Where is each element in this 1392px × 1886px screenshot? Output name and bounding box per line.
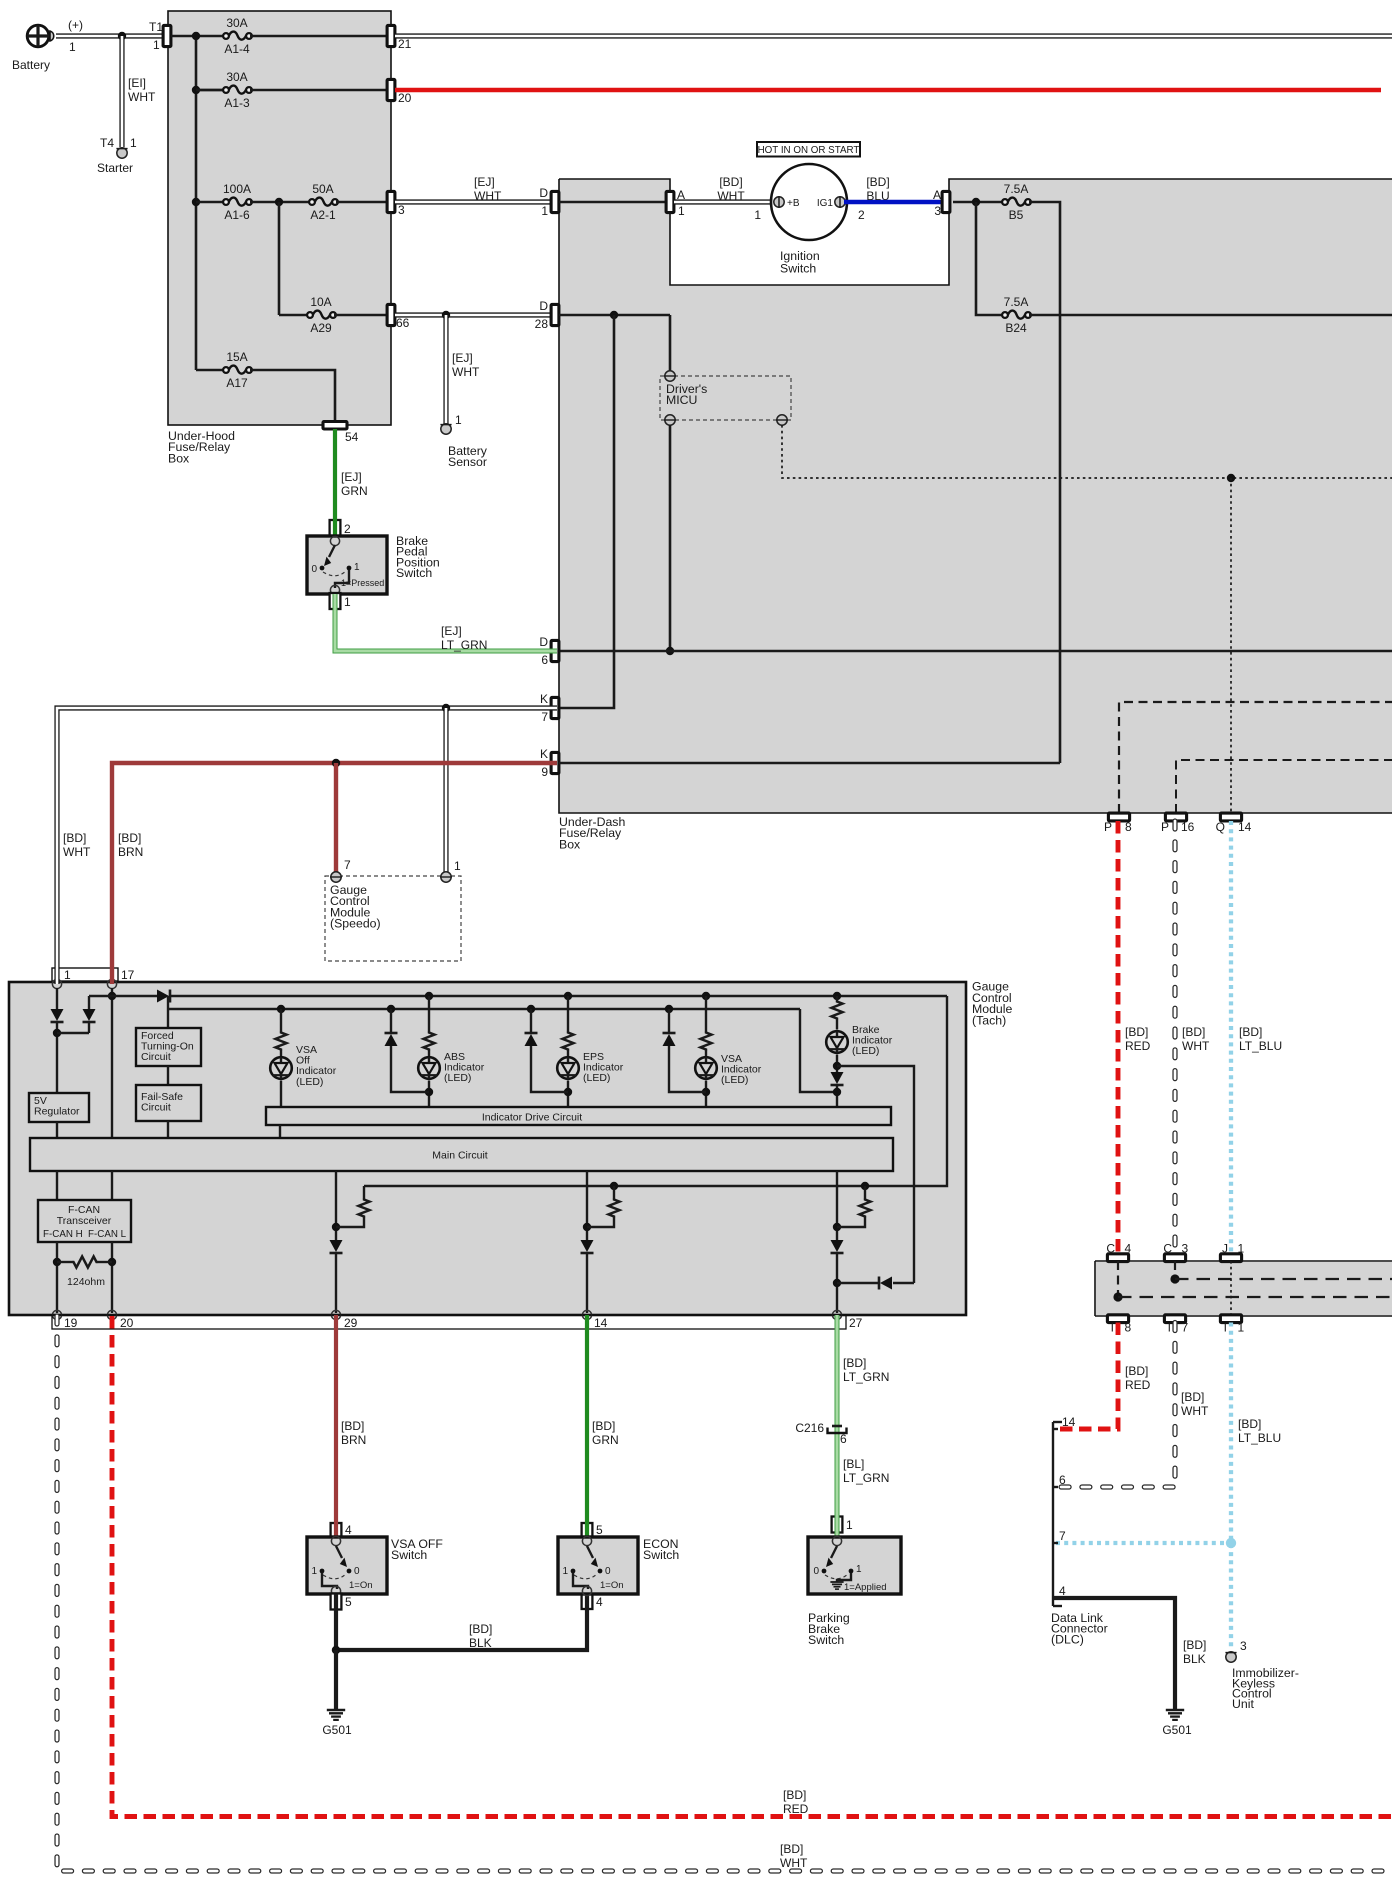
- MICU pin top-left: [665, 371, 675, 381]
- svg-text:3: 3: [1240, 1639, 1247, 1653]
- wire down to fuse A29: [278, 202, 281, 315]
- wire pin 66 to D28: [395, 312, 551, 317]
- svg-text:LT_BLU: LT_BLU: [1238, 1431, 1281, 1445]
- connector C4: [1107, 1254, 1128, 1262]
- svg-text:C: C: [1106, 1242, 1115, 1256]
- svg-text:[BD]: [BD]: [1181, 1390, 1204, 1404]
- wire fuse B24 to right edge: [1029, 314, 1392, 317]
- rail line1 to pullup rail: [364, 996, 947, 1186]
- node 124ohm right: [108, 1258, 116, 1266]
- svg-text:LT_GRN: LT_GRN: [843, 1471, 889, 1485]
- parking brake switch internals: [832, 1536, 841, 1545]
- svg-text:50A: 50A: [312, 182, 333, 196]
- speedo pin 7: [331, 872, 341, 882]
- svg-text:P: P: [1104, 820, 1112, 834]
- connector Q14: [1220, 813, 1241, 821]
- svg-text:WHT: WHT: [128, 90, 156, 104]
- svg-text:7.5A: 7.5A: [1004, 182, 1029, 196]
- connector VSA pin 5: [331, 1594, 342, 1610]
- svg-text:[EJ]: [EJ]: [441, 624, 462, 638]
- svg-text:(LED): (LED): [852, 1045, 879, 1057]
- connector P16: [1165, 813, 1186, 821]
- diode D pin1: [51, 1009, 64, 1021]
- connector pin 20: [387, 79, 395, 100]
- svg-text:17: 17: [121, 968, 135, 982]
- svg-text:BLK: BLK: [1183, 1652, 1206, 1666]
- speedo pin 1: [441, 872, 451, 882]
- column pin 27: [836, 1171, 838, 1240]
- node 124ohm left: [53, 1258, 61, 1266]
- svg-text:[BD]: [BD]: [783, 1788, 806, 1802]
- svg-text:WHT: WHT: [63, 845, 91, 859]
- svg-text:1: 1: [64, 968, 71, 982]
- node black junction: [332, 1646, 340, 1654]
- under-dash fuse/relay box: [559, 179, 1392, 813]
- wire fuse A1-4 to pin 21: [250, 35, 387, 38]
- connector C216: [832, 1425, 842, 1428]
- svg-text:14: 14: [594, 1316, 608, 1330]
- wire fuse A29 to pin 66: [334, 314, 387, 317]
- F-CAN L wire: [111, 1171, 113, 1200]
- svg-text:1: 1: [856, 1564, 862, 1575]
- svg-text:[BD]: [BD]: [341, 1419, 364, 1433]
- svg-text:[BD]: [BD]: [1125, 1025, 1148, 1039]
- node battery sensor tap: [442, 311, 450, 319]
- tach bottom pins: [52, 1310, 61, 1319]
- svg-text:1: 1: [846, 1518, 853, 1532]
- wire forced to fail-safe: [167, 1066, 169, 1085]
- wire D28 into box: [559, 314, 670, 317]
- connector I7: [1164, 1315, 1185, 1323]
- wire DLC 4 black to ground: [1053, 1598, 1175, 1709]
- rail line2 branch: [167, 996, 169, 1028]
- node lt-blue junction: [1226, 1538, 1236, 1548]
- svg-text:Circuit: Circuit: [141, 1051, 171, 1063]
- svg-text:A1-6: A1-6: [224, 208, 250, 222]
- svg-text:Circuit: Circuit: [141, 1102, 171, 1114]
- node pin17 rail: [108, 992, 116, 1000]
- tach pin 17: [107, 979, 116, 988]
- svg-text:1: 1: [678, 204, 685, 218]
- brake pedal switch internals: [330, 536, 339, 545]
- svg-text:K: K: [540, 747, 548, 761]
- ABS indicator column: [425, 992, 433, 1000]
- connector K9: [551, 752, 559, 773]
- fuse 30A A1-3: [196, 89, 225, 92]
- svg-text:WHT: WHT: [1181, 1404, 1209, 1418]
- wire fuse A1-3 to pin 20: [250, 89, 387, 92]
- svg-text:Box: Box: [559, 837, 581, 851]
- wire pin17 internal: [111, 988, 113, 1138]
- svg-text:2: 2: [344, 522, 351, 536]
- svg-text:A29: A29: [310, 321, 332, 335]
- svg-text:2: 2: [858, 208, 865, 222]
- svg-text:Main Circuit: Main Circuit: [432, 1150, 488, 1162]
- svg-text:1=On: 1=On: [349, 1580, 373, 1591]
- resistor 124ohm: [57, 1261, 72, 1263]
- wire P16 white dashed down: [1172, 821, 1177, 1254]
- svg-text:Switch: Switch: [780, 262, 816, 276]
- connector A3: [942, 191, 950, 212]
- starter terminal T4: [117, 148, 127, 158]
- svg-text:F-CAN H: F-CAN H: [43, 1229, 83, 1240]
- gauge control module (speedo) box: [325, 876, 461, 961]
- brake series diode: [831, 1072, 844, 1084]
- svg-text:Sensor: Sensor: [448, 455, 487, 469]
- driver's MICU box: [660, 376, 791, 420]
- wire split down to fuse B24: [976, 202, 1004, 315]
- tach bottom connector housing: [52, 1315, 846, 1329]
- node bus A1-6: [192, 198, 200, 206]
- ECON switch box: [558, 1537, 638, 1594]
- connector I1: [1220, 1315, 1241, 1323]
- ECON switch internals: [582, 1536, 591, 1545]
- bus wire inside under-hood box: [171, 35, 225, 38]
- svg-text:[BD]: [BD]: [719, 175, 742, 189]
- svg-text:Switch: Switch: [396, 566, 432, 580]
- wire A1-6 to A2-1: [250, 201, 311, 204]
- svg-text:Transceiver: Transceiver: [57, 1215, 112, 1227]
- svg-text:1=Pressed: 1=Pressed: [341, 578, 384, 588]
- svg-text:T1: T1: [149, 20, 163, 34]
- svg-text:1: 1: [354, 562, 360, 573]
- svg-text:(+): (+): [68, 18, 83, 32]
- svg-text:6: 6: [541, 653, 548, 667]
- svg-text:Switch: Switch: [391, 1548, 427, 1562]
- svg-text:Switch: Switch: [808, 1633, 844, 1647]
- svg-text:14: 14: [1062, 1415, 1076, 1429]
- wire pin 29 brown down: [334, 1315, 338, 1538]
- wire I7 white dashed to DLC 6: [1058, 1323, 1175, 1488]
- wire pin1 internal: [56, 988, 58, 1009]
- wire pin 20 red dashed to bottom right: [112, 1316, 1392, 1817]
- svg-text:BRN: BRN: [341, 1433, 366, 1447]
- F-CAN H wire: [56, 1171, 58, 1200]
- wire pin 14 green down: [585, 1315, 589, 1538]
- svg-text:9: 9: [541, 765, 548, 779]
- svg-text:29: 29: [344, 1316, 358, 1330]
- tach top connector housing: [52, 968, 118, 981]
- node speedo white tap: [442, 704, 450, 712]
- fuse 7.5A B5: [1002, 199, 1008, 205]
- svg-text:[BD]: [BD]: [63, 831, 86, 845]
- wire A1 to +B [BD] WHT: [674, 199, 776, 204]
- connector pin 54: [323, 422, 347, 430]
- svg-text:1: 1: [562, 1566, 568, 1577]
- node speedo brown tap: [332, 759, 340, 767]
- svg-text:D: D: [539, 299, 548, 313]
- svg-text:1: 1: [153, 38, 160, 52]
- connector D6: [551, 640, 559, 661]
- svg-text:D: D: [539, 635, 548, 649]
- brake indicator column: [833, 992, 841, 1000]
- wire IG1 to A3 [BD] BLU: [844, 200, 942, 205]
- node D28 split: [610, 311, 618, 319]
- svg-text:(Tach): (Tach): [972, 1013, 1006, 1027]
- svg-text:1: 1: [311, 1566, 317, 1577]
- bar internal dashed C4: [1117, 1261, 1119, 1297]
- svg-text:7: 7: [541, 710, 548, 724]
- svg-text:RED: RED: [1125, 1039, 1151, 1053]
- svg-text:20: 20: [398, 91, 412, 105]
- svg-text:Switch: Switch: [643, 1548, 679, 1562]
- dotted wire MICU to Q14 and right edge: [782, 425, 1392, 478]
- svg-text:30A: 30A: [226, 16, 247, 30]
- svg-text:[EJ]: [EJ]: [474, 175, 495, 189]
- svg-text:+B: +B: [787, 198, 800, 209]
- wire brake switch to D6 [EJ] LT_GRN: [335, 594, 557, 651]
- MICU pin bottom-right: [777, 415, 787, 425]
- wire MICU to D6 line: [669, 425, 672, 651]
- svg-text:124ohm: 124ohm: [67, 1276, 105, 1288]
- svg-text:Regulator: Regulator: [34, 1106, 80, 1118]
- line2 end to brake column: [800, 1009, 837, 1092]
- svg-text:I: I: [1168, 1321, 1171, 1335]
- svg-text:[EJ]: [EJ]: [452, 351, 473, 365]
- svg-text:10A: 10A: [310, 295, 331, 309]
- battery sensor terminal: [441, 424, 451, 434]
- wire pin 27 lt-green down: [835, 1315, 840, 1538]
- fuse 7.5A B24: [1002, 312, 1008, 318]
- bar internal dotted J1: [1230, 1261, 1232, 1316]
- svg-text:BLK: BLK: [469, 1636, 492, 1650]
- connector T1 pin 1: [163, 25, 171, 46]
- svg-text:1=On: 1=On: [600, 1580, 624, 1591]
- wire bus to fuse A17: [196, 369, 225, 372]
- fail-safe circuit box: [136, 1085, 201, 1121]
- svg-text:[BD]: [BD]: [1125, 1364, 1148, 1378]
- wire fuse B5 down to K9: [1029, 202, 1060, 763]
- svg-text:Indicator Drive Circuit: Indicator Drive Circuit: [482, 1112, 582, 1124]
- wire to starter [EI] WHT: [119, 36, 124, 147]
- svg-text:14: 14: [1238, 820, 1252, 834]
- svg-text:(LED): (LED): [721, 1074, 748, 1086]
- node fuse split: [275, 198, 283, 206]
- dashed wire P16 inside box: [1176, 760, 1392, 813]
- EPS parallel diode: [527, 1005, 535, 1013]
- connector D28: [551, 304, 559, 325]
- svg-text:0: 0: [354, 1566, 360, 1577]
- wire IDC to main: [279, 1125, 281, 1138]
- node diodes join: [53, 1029, 61, 1037]
- svg-text:C216: C216: [795, 1421, 824, 1435]
- svg-text:LT_BLU: LT_BLU: [1239, 1039, 1282, 1053]
- svg-text:4: 4: [596, 1595, 603, 1609]
- svg-text:B5: B5: [1009, 208, 1024, 222]
- svg-text:HOT IN ON OR START: HOT IN ON OR START: [758, 145, 860, 156]
- connector D1: [551, 191, 559, 212]
- svg-text:WHT: WHT: [717, 189, 745, 203]
- svg-text:[BD]: [BD]: [1182, 1025, 1205, 1039]
- wire Q14 lt-blue dotted down: [1229, 821, 1233, 1254]
- svg-text:5: 5: [345, 1595, 352, 1609]
- connector ECON pin 5: [582, 1523, 593, 1539]
- node bus A1-3: [192, 86, 200, 94]
- svg-text:Q: Q: [1216, 820, 1225, 834]
- svg-text:7: 7: [344, 858, 351, 872]
- VSA indicator column: [702, 992, 710, 1000]
- connector pin 21: [387, 25, 395, 46]
- svg-text:A1-4: A1-4: [224, 42, 250, 56]
- svg-text:BRN: BRN: [118, 845, 143, 859]
- immobilizer pin 3: [1226, 1652, 1236, 1662]
- svg-text:(DLC): (DLC): [1051, 1632, 1084, 1646]
- svg-text:3: 3: [1182, 1242, 1189, 1256]
- wire battery to T1: [56, 33, 163, 38]
- wire K9 brown to left: [112, 763, 557, 984]
- connector brake pedal switch pin 1: [330, 593, 341, 609]
- connector C3: [1164, 1254, 1185, 1262]
- svg-text:3: 3: [398, 203, 405, 217]
- svg-text:Unit: Unit: [1232, 1697, 1254, 1711]
- wire white down to speedo pin 1: [443, 708, 448, 872]
- VSA OFF switch internals: [331, 1536, 340, 1545]
- svg-text:LT_GRN: LT_GRN: [843, 1370, 889, 1384]
- svg-text:30A: 30A: [226, 70, 247, 84]
- svg-text:(LED): (LED): [583, 1072, 610, 1084]
- wire K9 inside box: [559, 762, 1060, 765]
- svg-text:G501: G501: [1162, 1723, 1192, 1737]
- svg-text:5: 5: [596, 1523, 603, 1537]
- ground G501 right: [1166, 1709, 1184, 1712]
- svg-text:Starter: Starter: [97, 161, 133, 175]
- svg-text:LT_GRN: LT_GRN: [441, 638, 487, 652]
- svg-text:1=Applied: 1=Applied: [844, 1582, 887, 1593]
- svg-text:C: C: [1163, 1242, 1172, 1256]
- svg-text:3: 3: [934, 204, 941, 218]
- svg-text:J: J: [1222, 1242, 1228, 1256]
- column pin 14: [586, 1171, 588, 1240]
- svg-text:T4: T4: [100, 136, 114, 150]
- wire fuse A17 to pin 54: [250, 370, 335, 421]
- wire fail-safe to main: [167, 1121, 169, 1138]
- F-CAN transceiver box: [38, 1200, 131, 1242]
- svg-text:[BD]: [BD]: [1183, 1638, 1206, 1652]
- wire I8 red dashed to DLC 14: [1056, 1323, 1118, 1430]
- svg-text:K: K: [540, 692, 548, 706]
- wire black to ground: [334, 1650, 338, 1709]
- svg-text:RED: RED: [783, 1802, 809, 1816]
- under-hood fuse/relay box: [168, 11, 391, 425]
- wire brown down to speedo pin 7: [334, 763, 338, 872]
- svg-text:7.5A: 7.5A: [1004, 295, 1029, 309]
- svg-text:[BD]: [BD]: [866, 175, 889, 189]
- rail line1 with diode: [112, 995, 157, 997]
- svg-text:Battery: Battery: [12, 58, 50, 72]
- svg-text:GRN: GRN: [341, 484, 368, 498]
- connector P8: [1108, 813, 1129, 821]
- svg-text:1: 1: [541, 204, 548, 218]
- svg-text:Box: Box: [168, 451, 190, 465]
- svg-text:100A: 100A: [223, 182, 251, 196]
- svg-text:1: 1: [344, 595, 351, 609]
- svg-text:8: 8: [1125, 1321, 1132, 1335]
- wire A3 to fuse B5: [953, 201, 1004, 204]
- node B5/B24 split: [972, 198, 980, 206]
- svg-text:1: 1: [1238, 1242, 1245, 1256]
- svg-text:IG1: IG1: [817, 198, 834, 209]
- connector ECON pin 4b: [582, 1593, 593, 1609]
- wire down to MICU: [669, 315, 672, 372]
- fuse 50A A2-1: [309, 199, 315, 205]
- svg-text:[BD]: [BD]: [843, 1356, 866, 1370]
- wire pin 54 green [EJ] GRN: [333, 429, 337, 538]
- connector A1: [666, 191, 674, 212]
- svg-text:1: 1: [754, 208, 761, 222]
- svg-text:[BD]: [BD]: [469, 1622, 492, 1636]
- connector K7: [551, 697, 559, 718]
- svg-text:1: 1: [69, 40, 76, 54]
- svg-text:[BL]: [BL]: [843, 1457, 864, 1471]
- svg-text:[BD]: [BD]: [592, 1419, 615, 1433]
- ignition switch: [771, 164, 847, 240]
- column pin 29: [335, 1171, 337, 1240]
- wire pin 21 white to right edge: [395, 33, 1392, 38]
- wire I1 lt-blue dotted down: [1229, 1323, 1233, 1651]
- wire 5V reg to main: [56, 1122, 58, 1138]
- svg-text:WHT: WHT: [474, 189, 502, 203]
- junction connector gray bar: [1096, 1262, 1392, 1315]
- connector VSA pin 4: [331, 1523, 342, 1539]
- svg-text:(LED): (LED): [296, 1076, 323, 1088]
- wire F-CAN L to pin 20: [111, 1242, 113, 1313]
- wire lt-blue to DLC 7: [1056, 1541, 1231, 1545]
- EPS indicator column: [564, 992, 572, 1000]
- wire pin 19 white dashed to bottom right: [57, 1316, 1392, 1871]
- svg-text:B24: B24: [1005, 321, 1027, 335]
- diode D pin17 branch: [88, 996, 90, 1009]
- svg-text:6: 6: [840, 1432, 847, 1446]
- svg-text:66: 66: [396, 316, 410, 330]
- wire pin 3 to D1 [EJ] WHT: [395, 199, 551, 204]
- connector pin 66: [387, 304, 395, 325]
- svg-text:[EI]: [EI]: [128, 76, 146, 90]
- svg-text:A17: A17: [226, 376, 248, 390]
- svg-text:(LED): (LED): [444, 1072, 471, 1084]
- pullup resistor 27: [861, 1182, 869, 1190]
- VSA parallel diode: [665, 1005, 673, 1013]
- connector parking pin 1: [832, 1517, 843, 1533]
- indicator drive circuit box: [266, 1107, 891, 1125]
- svg-text:1: 1: [455, 413, 462, 427]
- 5V regulator box: [29, 1093, 89, 1122]
- svg-text:54: 54: [345, 430, 359, 444]
- forced turning-on circuit box: [136, 1028, 201, 1066]
- svg-text:A: A: [933, 188, 941, 202]
- main circuit box: [30, 1138, 893, 1171]
- svg-text:1: 1: [454, 859, 461, 873]
- pullup resistor 29: [363, 1186, 365, 1198]
- data link connector line: [1052, 1422, 1054, 1606]
- svg-text:F-CAN L: F-CAN L: [88, 1229, 127, 1240]
- svg-text:1: 1: [1238, 1321, 1245, 1335]
- connector J1: [1220, 1254, 1241, 1262]
- svg-text:0: 0: [311, 564, 317, 575]
- svg-text:[BD]: [BD]: [780, 1842, 803, 1856]
- fuse 30A A1-4: [223, 33, 229, 39]
- svg-text:GRN: GRN: [592, 1433, 619, 1447]
- svg-text:0: 0: [605, 1566, 611, 1577]
- fuse 15A A17: [223, 367, 229, 373]
- svg-text:A1-3: A1-3: [224, 96, 250, 110]
- battery: [27, 25, 49, 47]
- tach pin 1: [52, 979, 61, 988]
- feedback diode to 27: [893, 1282, 914, 1284]
- fuse 100A A1-6: [196, 201, 225, 204]
- svg-text:19: 19: [64, 1316, 78, 1330]
- svg-text:[BD]: [BD]: [118, 831, 141, 845]
- svg-text:27: 27: [849, 1316, 863, 1330]
